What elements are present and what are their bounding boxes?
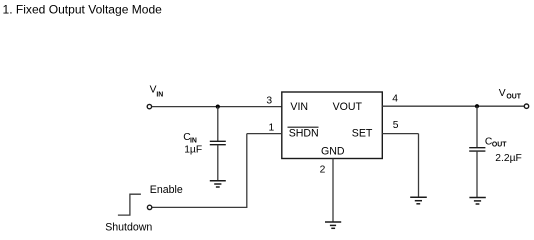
capacitor COUT: [469, 148, 485, 151]
svg-text:3: 3: [266, 96, 272, 107]
label VOUT: [499, 88, 522, 101]
svg-text:GND: GND: [321, 145, 345, 157]
svg-text:Enable: Enable: [150, 184, 183, 196]
svg-text:SHDN: SHDN: [289, 127, 319, 139]
capacitor CIN: [210, 141, 226, 144]
svg-text:5: 5: [393, 120, 399, 131]
junction input rail / CIN: [216, 105, 220, 109]
svg-text:VIN: VIN: [290, 101, 308, 113]
svg-text:VOUT: VOUT: [333, 101, 363, 113]
label CIN value 1uF: [183, 132, 202, 155]
svg-text:1: 1: [269, 123, 275, 134]
step waveform symbol (shutdown to enable edge): [118, 194, 141, 215]
wire GND pin 2 to ground: [332, 159, 334, 222]
ground (SET): [410, 197, 427, 204]
svg-text:Shutdown: Shutdown: [105, 221, 152, 233]
svg-text:IN: IN: [156, 91, 163, 98]
svg-text:1µF: 1µF: [184, 145, 202, 156]
wire SET pin vertical to ground: [418, 134, 420, 198]
label VIN: [150, 84, 164, 98]
svg-text:IN: IN: [190, 137, 197, 144]
wire enable vertical: [246, 134, 248, 208]
svg-text:2: 2: [320, 164, 326, 175]
pin label SHDN (active low, overline): [288, 127, 319, 139]
ground (CIN): [210, 181, 226, 187]
wire input rail: [152, 106, 282, 108]
svg-text:1. Fixed Output Voltage Mode: 1. Fixed Output Voltage Mode: [3, 2, 163, 16]
wire SET pin horizontal: [382, 133, 418, 135]
svg-text:OUT: OUT: [506, 94, 521, 101]
ground (IC GND): [325, 222, 341, 228]
node VOUT terminal: [524, 104, 528, 108]
svg-text:OUT: OUT: [492, 142, 507, 149]
svg-text:4: 4: [392, 94, 398, 105]
wire enable horizontal: [152, 206, 247, 208]
svg-text:SET: SET: [352, 127, 373, 139]
IC regulator U1 body: [282, 92, 383, 159]
ground (COUT): [469, 198, 485, 205]
junction output rail / COUT: [475, 104, 479, 108]
wire junction to CIN: [217, 107, 219, 141]
node Enable terminal: [147, 205, 151, 209]
svg-text:2.2µF: 2.2µF: [495, 153, 522, 164]
label COUT value 2.2uF: [485, 136, 522, 164]
wire output rail: [382, 105, 524, 107]
wire CIN to ground: [217, 145, 219, 181]
wire SHDN pin to enable net: [247, 133, 282, 135]
svg-text:V: V: [499, 88, 506, 99]
wire junction to COUT: [476, 106, 478, 147]
wire COUT to ground: [476, 151, 478, 197]
node VIN terminal: [147, 104, 151, 108]
